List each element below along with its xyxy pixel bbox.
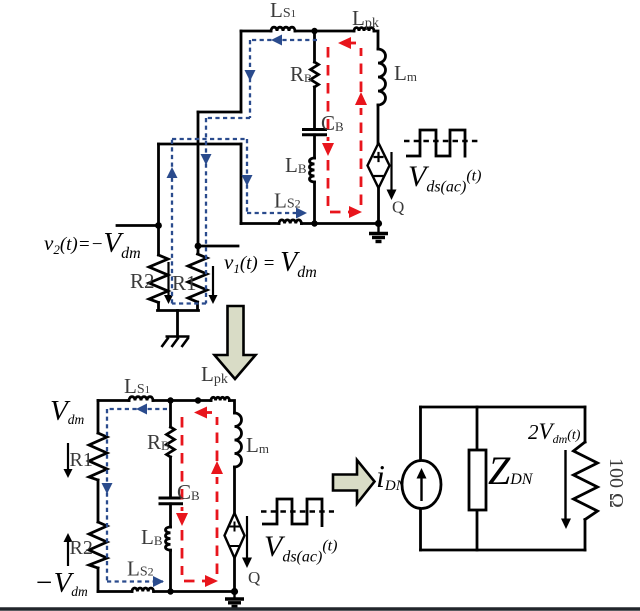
wire source to bottom node — [233, 558, 236, 592]
current source arrow (up) — [417, 468, 427, 501]
wire blue loop bottom under R1 — [172, 302, 206, 304]
blue arrow top (left) — [136, 404, 147, 415]
blue arrow R1-left (up) — [167, 167, 178, 178]
earth ground (bottom circuit) — [225, 592, 244, 607]
wire CB to LB — [169, 504, 172, 527]
wire blue R1-right vertical — [205, 118, 207, 304]
wire top rail left segment (top circuit) — [241, 30, 271, 33]
svg-text:R1: R1 — [70, 449, 93, 471]
inductor Ls2 (top circuit) — [279, 220, 301, 224]
blue arrow right vertical (down) — [242, 175, 253, 186]
resistor R2 (bottom circuit) — [89, 522, 107, 568]
wire top rail right corner — [229, 401, 234, 414]
wire top rail right corner — [374, 31, 378, 49]
svg-text:R2: R2 — [70, 537, 93, 559]
node at bottom rail / LB junction — [311, 220, 317, 226]
blue arrow top (left) — [271, 35, 282, 46]
wire right vertical upper stub — [584, 407, 587, 442]
blue arrow left (down) — [102, 483, 113, 494]
wire v2 stub — [117, 224, 159, 227]
wire middle branch top (RB branch) — [313, 31, 316, 62]
wire blue R2 horizontal — [172, 138, 247, 140]
wire red loop left lower — [327, 160, 330, 206]
node at v2 stub — [155, 222, 162, 229]
wire blue step horizontal — [206, 117, 250, 119]
red arrow top (left) — [194, 407, 207, 419]
node bottom rail / source — [231, 588, 238, 595]
blue differential-current loop (bottom circuit) — [107, 409, 167, 582]
wire resistor bottoms to common bar — [158, 302, 199, 311]
wire blue top — [250, 39, 317, 41]
node bottom rail / LB branch — [167, 588, 173, 594]
wire red loop bottom — [184, 580, 208, 583]
wire Lm to source — [233, 467, 236, 513]
square wave symbol (top) dashed axis — [404, 140, 478, 143]
inductor Ls1 (top circuit) — [271, 27, 295, 31]
square wave symbol (bottom) dashed axis — [261, 510, 334, 513]
Q output arrow (top circuit) — [387, 152, 397, 200]
resistor R1 (top circuit) — [188, 254, 207, 302]
wire blue right vertical — [246, 139, 248, 213]
inductor Lm (top circuit) — [378, 49, 386, 105]
wire blue left vertical — [106, 409, 108, 582]
wire bottom rail left — [98, 590, 132, 593]
wire CB to LB — [313, 135, 316, 158]
inductor Ls2 (bottom circuit) — [132, 588, 154, 592]
inductor LB (top circuit) — [310, 158, 315, 182]
wire blue R1-left vertical — [171, 139, 173, 304]
current arrow beside R2 (down) — [164, 262, 218, 304]
inductor Ls1 (bottom circuit) — [129, 397, 153, 401]
wire left branch: top rail down to step — [240, 31, 243, 112]
wire blue bottom horizontal — [247, 212, 306, 214]
wire red loop left — [327, 47, 330, 141]
wire equivalent-circuit top rail — [421, 406, 586, 409]
wire step horizontal to R1 column — [198, 111, 241, 114]
red resonant-current loop (top circuit) — [328, 43, 361, 212]
wire RB to CB — [313, 87, 316, 129]
voltage arrow 2Vdm (down) — [561, 450, 571, 529]
wire red loop top — [340, 42, 356, 45]
bottom border line — [0, 607, 640, 610]
wire v1 stub — [198, 245, 238, 248]
blue arrow bottom (right) — [153, 576, 164, 587]
svg-text:R1: R1 — [172, 271, 197, 295]
inductor Lpk (top circuit) — [354, 28, 374, 31]
resistor 100ohm (right branch) — [574, 442, 598, 520]
blue arrow bottom (right) — [296, 208, 307, 219]
wire Lm to source Q — [377, 105, 380, 143]
red arrow bottom (right) — [349, 206, 362, 218]
node at v1 stub — [195, 243, 202, 250]
blue arrow left vertical (down) — [245, 70, 256, 81]
wire red loop left lower — [181, 530, 184, 575]
wire R2 branch down to bottom rail — [240, 144, 243, 224]
red arrow left (down) — [322, 143, 334, 156]
wire blue left vertical — [249, 40, 251, 118]
current arrow beside R2 (up, bottom circuit) — [67, 539, 69, 566]
node at Ls1/RB junction — [311, 28, 317, 34]
red arrow left (down) — [176, 513, 188, 526]
earth ground (top circuit) — [369, 224, 388, 242]
wire between R1 and R2 — [97, 480, 100, 522]
wire RB to CB — [169, 457, 172, 498]
svg-text:Q: Q — [248, 568, 260, 587]
wire source to bottom node — [377, 188, 380, 224]
wire R2 branch horizontal — [159, 143, 242, 146]
wire red loop left upper — [181, 417, 184, 511]
inductor LB (bottom circuit) — [166, 527, 171, 550]
current arrow beside R1 (down) — [212, 266, 214, 298]
wire equivalent-circuit left vertical — [419, 407, 422, 550]
plus sign inside source — [375, 153, 383, 161]
chassis ground (top circuit) — [162, 337, 190, 348]
node top rail / Lpk — [195, 397, 201, 403]
current arrow beside R1 (down, bottom circuit) — [64, 443, 73, 566]
Q output arrow (bottom circuit) — [242, 516, 252, 568]
dependent source Q diamond (bottom circuit) — [225, 513, 245, 558]
resistor RB (bottom circuit) — [167, 427, 175, 457]
blue differential-current path (top circuit) — [172, 40, 317, 304]
block arrow right (iDN indicator) — [333, 460, 375, 504]
inductor Lm (bottom circuit) — [235, 413, 242, 467]
wire red loop right — [360, 108, 363, 205]
svg-text:100 Ω: 100 Ω — [605, 458, 627, 508]
wire LB to bottom rail — [313, 182, 316, 224]
wire blue bottom — [107, 580, 163, 582]
square wave symbol (top) waveform — [406, 130, 465, 158]
blue arrow R1-right (down) — [201, 154, 212, 165]
wire red loop right upper — [360, 48, 363, 92]
red arrow right (up) — [355, 92, 367, 105]
svg-text:R2: R2 — [130, 269, 155, 293]
wire red loop right lower — [216, 477, 219, 574]
dependent source Q diamond (top circuit) — [368, 143, 390, 188]
impedance box ZDN — [469, 450, 486, 510]
resistor R1 (bottom circuit) — [89, 433, 107, 480]
wire top rail left (bottom circuit) — [98, 399, 129, 402]
capacitor CB (bottom circuit) — [160, 498, 182, 504]
square wave symbol (bottom) waveform — [262, 499, 322, 527]
red arrow bottom (right) — [205, 575, 218, 587]
resistor R2 (top circuit) — [149, 255, 168, 303]
wire R2 to bottom rail — [97, 568, 100, 592]
wire bottom rail (top circuit) — [241, 222, 279, 225]
svg-text:Q: Q — [392, 198, 404, 217]
wire red loop bottom — [330, 211, 349, 214]
red resonant-current loop (bottom circuit) — [182, 413, 217, 582]
red arrow right (up) — [211, 461, 223, 474]
wire top rail middle — [153, 399, 211, 402]
block arrow down (transform indicator) — [215, 306, 256, 379]
node top rail / RB branch — [167, 397, 173, 403]
inductor Lpk (bottom circuit) — [211, 397, 229, 400]
wire stem to chassis ground — [176, 311, 179, 337]
capacitor CB (top circuit) — [304, 130, 326, 135]
wire top rail mid segment — [295, 30, 354, 33]
current source iDN circle — [402, 461, 441, 509]
minus sign inside source — [375, 175, 383, 177]
wire R1 column down to v1 node — [197, 112, 200, 254]
wire right vertical lower stub — [584, 520, 587, 551]
resistor RB (top circuit) — [311, 62, 319, 87]
plus sign inside source — [231, 523, 239, 531]
wire middle branch from top node — [169, 401, 172, 428]
wire LB to bottom rail — [169, 550, 172, 591]
wire blue top — [107, 408, 167, 410]
wire left vertical top (bottom circuit) — [97, 401, 100, 434]
node at bottom rail / source junction — [375, 220, 382, 227]
wire ZDN branch lower — [476, 510, 479, 550]
wire red loop top — [196, 411, 212, 414]
wire red loop right upper — [216, 417, 219, 461]
wire ZDN branch upper — [476, 407, 479, 450]
wire equivalent-circuit bottom rail — [421, 549, 586, 552]
red arrow top (left) — [338, 37, 351, 49]
wire bottom rail right segment — [301, 222, 378, 225]
wire bottom rail right — [154, 590, 235, 593]
wire R2 column down — [157, 144, 160, 255]
minus sign inside source — [231, 545, 239, 547]
